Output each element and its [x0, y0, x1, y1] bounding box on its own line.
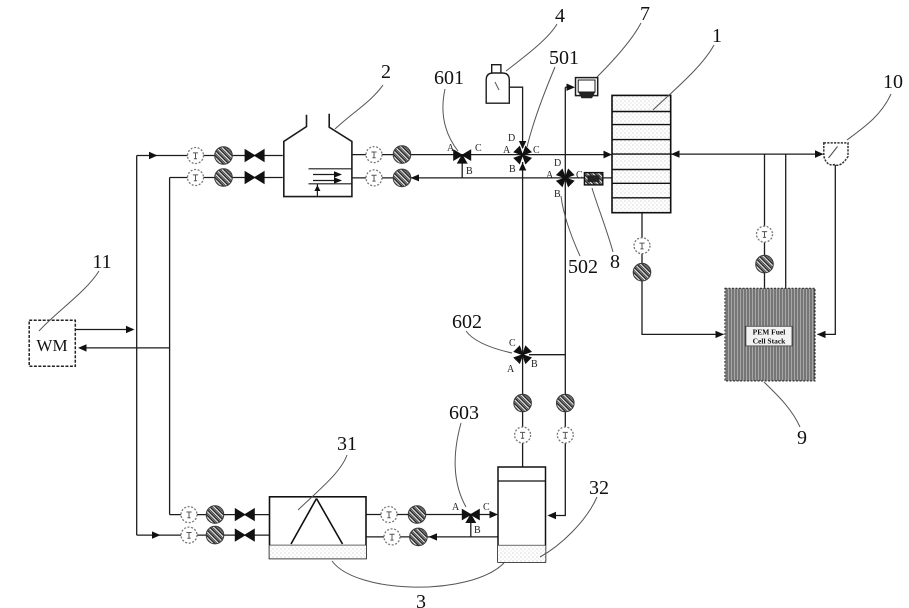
- cooler 32: [498, 467, 546, 562]
- sensor pair on top line left (light): [188, 148, 204, 164]
- HX left sensor bottom line (light): [181, 527, 197, 543]
- svg-text:603: 603: [449, 402, 479, 424]
- svg-text:A: A: [507, 364, 515, 375]
- valve 603: [462, 510, 479, 523]
- valve on return line left: [245, 172, 264, 184]
- svg-text:A: A: [503, 145, 511, 156]
- svg-text:A: A: [452, 502, 460, 513]
- wire: stack to tank return line: [352, 177, 612, 179]
- svg-text:PEM Fuel: PEM Fuel: [753, 328, 786, 337]
- sensor below stack (light): [634, 238, 650, 254]
- valve 602: [514, 346, 531, 363]
- svg-text:C: C: [576, 170, 583, 181]
- node: arrow into stack right: [671, 150, 680, 157]
- heater in tank 2: [309, 169, 352, 197]
- svg-text:502: 502: [568, 256, 598, 278]
- svg-text:B: B: [531, 359, 538, 370]
- wire: WM bottom line: [80, 347, 170, 349]
- svg-text:WM: WM: [36, 336, 67, 355]
- wire: HX to box 32 top line: [366, 514, 497, 516]
- HX right sensor top line (dark): [408, 506, 426, 524]
- sensor after tank return (dark): [393, 169, 411, 187]
- sensor below stack (dark): [633, 263, 651, 281]
- svg-text:C: C: [475, 143, 482, 154]
- wire: outer vertical to HX bottom line: [137, 534, 270, 536]
- valve 601: [454, 150, 471, 163]
- wire: separator 10 down and into PEM right: [818, 165, 836, 335]
- valve 502: [557, 169, 574, 186]
- node: arrow into box 32 left: [490, 511, 499, 518]
- svg-text:B: B: [509, 164, 516, 175]
- svg-text:3: 3: [416, 591, 426, 608]
- wire: box 32 to HX bottom line: [366, 536, 498, 538]
- wire: monitor horizontal stub: [565, 86, 573, 88]
- separator 10: [824, 143, 848, 165]
- monitor 7: [576, 78, 598, 96]
- svg-text:1: 1: [712, 25, 722, 47]
- svg-text:9: 9: [797, 427, 807, 449]
- hydrogen sensor 8: [584, 173, 602, 185]
- valve 501: [514, 147, 531, 164]
- svg-text:501: 501: [549, 47, 579, 69]
- wire: valve 501 B stub down to return line and on to valve 602: [522, 162, 524, 467]
- svg-text:11: 11: [92, 251, 111, 273]
- svg-text:B: B: [554, 189, 561, 200]
- HX left sensor top line (dark): [206, 506, 224, 524]
- HX right sensor top line (light): [381, 507, 397, 523]
- wire: left outer vertical: [136, 156, 138, 536]
- node: arrow WM top line: [126, 326, 135, 333]
- node: arrow into tank on return line: [411, 174, 420, 181]
- svg-text:601: 601: [434, 67, 464, 89]
- wire: second drop to PEM top: [785, 154, 787, 288]
- wire: condenser drop to PEM top: [764, 154, 766, 288]
- wire: monitor feed vertical: [549, 87, 565, 515]
- node: arrow into valve 501 B port: [519, 163, 526, 171]
- svg-text:D: D: [554, 158, 561, 169]
- svg-text:2: 2: [381, 61, 391, 83]
- wire: stack bottom drain to PEM left: [642, 213, 724, 335]
- sensor pair on return line left (light): [188, 170, 204, 186]
- wire: valve 603 B stub: [470, 520, 472, 537]
- node: arrow bottom left line: [152, 531, 161, 538]
- node: arrow into left vertical on top line: [149, 152, 158, 159]
- svg-text:602: 602: [452, 311, 482, 333]
- svg-text:32: 32: [589, 477, 609, 499]
- wire: return line to tank left segment: [170, 177, 283, 179]
- sensor after tank top (dark): [393, 146, 411, 164]
- svg-text:B: B: [474, 525, 481, 536]
- sensor on line 565 (dark): [557, 394, 575, 412]
- heat exchanger 31: [270, 497, 367, 559]
- node: arrow into separator 10: [815, 150, 824, 158]
- node: arrow into monitor 7: [567, 84, 576, 91]
- svg-text:C: C: [533, 145, 540, 156]
- node: arrow into PEM left: [716, 331, 725, 338]
- wire: top supply line left segment: [137, 155, 283, 157]
- humidifier stack 1: [612, 95, 671, 212]
- svg-text:4: 4: [555, 5, 565, 27]
- node: arrow into stack left: [604, 151, 613, 159]
- valve HX left top: [235, 509, 254, 521]
- node: arrow on HX bottom return: [429, 533, 438, 540]
- HX right sensor bottom line (dark): [410, 528, 428, 546]
- wire: left inner vertical: [169, 178, 171, 515]
- wire: WM top line: [75, 329, 132, 331]
- svg-text:A: A: [546, 170, 554, 181]
- gas bottle 4: [486, 65, 509, 104]
- sensor on line 565 (light): [557, 427, 573, 443]
- svg-text:Cell Stack: Cell Stack: [753, 337, 787, 346]
- svg-text:8: 8: [610, 251, 620, 273]
- wire: gas bottle outlet: [509, 87, 522, 148]
- node: arrow into box 32 right: [548, 512, 557, 519]
- HX left sensor bottom line (dark): [206, 526, 224, 544]
- sensor on condenser drop (light): [757, 226, 773, 242]
- svg-text:31: 31: [337, 433, 357, 455]
- valve on top line left: [245, 150, 264, 162]
- wire: stack right to separator 10: [671, 153, 823, 155]
- HX left sensor top line (light): [181, 507, 197, 523]
- tank 2: [284, 114, 352, 197]
- svg-text:C: C: [509, 338, 516, 349]
- node: arrow into WM box: [78, 344, 87, 351]
- sensor pair on return line left (dark): [215, 169, 233, 187]
- wire: tank to stack supply line: [352, 154, 608, 156]
- node: arrow into PEM right: [817, 331, 826, 338]
- sensor after tank return (light): [366, 170, 382, 186]
- water machine WM 11: [29, 320, 75, 366]
- HX right sensor bottom line (light): [384, 529, 400, 545]
- valve HX left bottom: [235, 529, 254, 541]
- sensor on condenser drop (dark): [756, 255, 774, 273]
- sensor pair on top line left (dark): [215, 147, 233, 165]
- svg-text:7: 7: [640, 3, 650, 25]
- PEM fuel cell stack 9: [725, 288, 815, 381]
- svg-text:D: D: [508, 133, 515, 144]
- sensor on line 521 (dark): [514, 394, 532, 412]
- wire: valve 601 B stub: [461, 161, 463, 178]
- node: arrow into valve 501 D port: [519, 141, 526, 149]
- svg-text:C: C: [483, 502, 490, 513]
- svg-text:10: 10: [883, 71, 903, 93]
- sensor on line 521 (light): [515, 427, 531, 443]
- wire: valve 602 B link: [529, 354, 565, 356]
- wire: inner vertical to HX top line: [170, 514, 270, 516]
- svg-text:B: B: [466, 166, 473, 177]
- sensor after tank top (light): [366, 147, 382, 163]
